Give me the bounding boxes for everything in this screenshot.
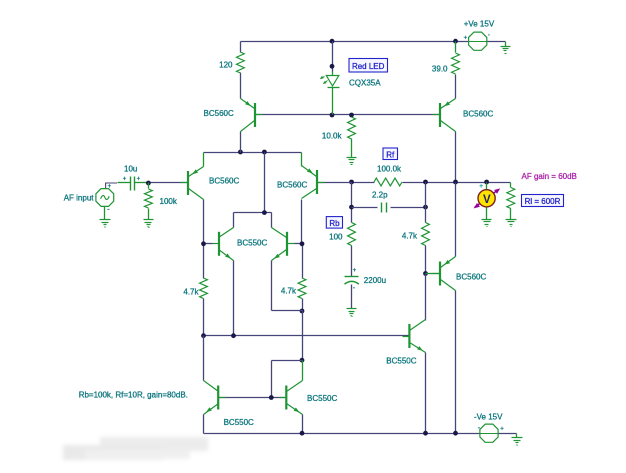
ground below Rl (506, 219, 517, 221)
svg-text:+: + (137, 177, 141, 183)
svg-text:4.7k: 4.7k (402, 232, 418, 241)
svg-text:100: 100 (329, 233, 343, 242)
svg-text:CQX35A: CQX35A (349, 79, 381, 88)
svg-text:BC560C: BC560C (456, 273, 486, 282)
wire lower jog down (271, 361, 273, 398)
svg-text:-Ve 15V: -Ve 15V (474, 412, 503, 421)
wire LED lead lower (332, 88, 334, 115)
wire +Ve source to ground (488, 41, 506, 43)
wire 2.2p row right (391, 207, 426, 209)
capacitor 2.2p (381, 203, 383, 213)
junction dot input node (146, 181, 151, 186)
transistor Q10 BC550C bottom right (285, 386, 287, 410)
transistor Q9 BC550C bottom left (217, 386, 219, 410)
junction dot bottom base node (269, 395, 274, 400)
wire mirror column vertical (264, 153, 266, 213)
wire bottom-right collector stub (302, 361, 304, 381)
junction dot long rail left (201, 333, 206, 338)
resistor 10.0k (348, 117, 356, 139)
wire right emitter jog (272, 310, 303, 312)
label Rb box (326, 217, 342, 229)
svg-text:+: + (464, 36, 468, 42)
svg-text:4.7k: 4.7k (183, 288, 199, 297)
junction dot mirror column on emitter rail (262, 150, 267, 155)
svg-text:Rb: Rb (329, 219, 340, 228)
source -Ve 15V (480, 424, 498, 442)
resistor Rb 100 (348, 223, 356, 246)
resistor 100k (145, 189, 153, 208)
wire 39 res to Q4 emitter (455, 75, 457, 99)
junction dot Q7 base node (423, 271, 428, 276)
wire AF source bottom (104, 207, 106, 220)
wire bottom-left emitter stub (203, 415, 205, 434)
svg-text:BC550C: BC550C (224, 418, 254, 427)
svg-text:+: + (108, 184, 112, 190)
wire Q5 collector down (301, 200, 303, 244)
wire 4.7k bottom to base node (425, 246, 427, 274)
ground below 2200u (347, 308, 357, 310)
svg-text:2.2p: 2.2p (372, 191, 388, 200)
junction dot output 4.7k tap (423, 180, 428, 185)
wire feedback node down (351, 183, 353, 223)
wire Q7 collector down to rail (455, 291, 457, 434)
svg-text:Rf: Rf (386, 150, 395, 159)
ground below AF source (100, 219, 111, 221)
transistor Q4 BC560C output top (439, 103, 441, 127)
wire mirror left collector stub (233, 213, 235, 228)
transistor Q8 BC550C driver (408, 324, 410, 348)
ground at -Ve (516, 434, 518, 438)
wire right 4.7k bottom (302, 299, 304, 311)
junction dot top rail at LED column (330, 39, 335, 44)
transistor Q7 BC560C lower right (439, 262, 441, 286)
svg-text:+: + (353, 268, 357, 274)
svg-text:BC560C: BC560C (277, 180, 307, 189)
wire 120 res to rail (240, 42, 242, 53)
label Red LED box (349, 59, 388, 73)
svg-text:BC550C: BC550C (386, 357, 416, 366)
svg-text:AF gain = 60dB: AF gain = 60dB (522, 172, 577, 181)
junction dot 2nd stage collector on emitter rail (238, 150, 243, 155)
wire 4.7k output column upper (425, 183, 427, 223)
wire driver emitter down to rail (425, 353, 427, 434)
junction dot 10k column on second rail (349, 113, 354, 118)
wire Q7 base lead (426, 273, 441, 275)
junction dot bottom rail x425 (423, 431, 428, 436)
svg-text:BC550C: BC550C (237, 239, 267, 248)
wire bottom rail (204, 433, 480, 435)
svg-text:AF input: AF input (64, 194, 95, 203)
wire feedback node to Rf (352, 182, 375, 184)
junction dot Q3 collector node (201, 241, 206, 246)
wire Q3 collector node down (203, 244, 205, 279)
wire output row (403, 182, 511, 184)
wire Q3 input collector down (203, 200, 205, 244)
wire bottom base link (219, 397, 287, 399)
wire diff-pair emitter rail (204, 152, 302, 154)
wire lower jog left (272, 360, 303, 362)
wire mirror collectors horizontal (234, 212, 272, 214)
svg-text:39.0: 39.0 (432, 65, 448, 74)
wire left 4.7k bottom (203, 299, 205, 336)
junction dot 2.2p right (423, 205, 428, 210)
junction dot bottom rail x455 (453, 431, 458, 436)
svg-text:': ' (488, 34, 489, 41)
wire AF source top (106, 183, 118, 189)
svg-text:V: V (483, 194, 491, 206)
svg-text:BC560C: BC560C (209, 176, 239, 185)
svg-text:BC560C: BC560C (463, 110, 493, 119)
transistor Q1 BC560C second stage (254, 103, 256, 127)
svg-text:10u: 10u (124, 165, 137, 174)
label Rl box (522, 195, 564, 207)
wire mirror right base (295, 243, 303, 245)
ground below 10.0k (347, 157, 357, 159)
wire right mirror emitter down (271, 261, 273, 311)
wire bottom-right emitter stub (302, 415, 304, 434)
wire LED column upper (332, 42, 334, 72)
junction dot 2.2p left (349, 205, 354, 210)
svg-text:Rb=100k, Rf=10R, gain=80dB.: Rb=100k, Rf=10R, gain=80dB. (79, 390, 188, 399)
wire 100k bottom lead (148, 209, 150, 220)
wire Rb bottom to cap (351, 246, 353, 277)
svg-text:100k: 100k (160, 197, 178, 206)
junction dot output emitter tap (453, 180, 458, 185)
capacitor 2200u (345, 276, 359, 278)
wire cap to ground (351, 285, 353, 309)
wire long mid rail (204, 335, 410, 337)
wire left column to bottom mirror (203, 336, 205, 381)
svg-text:120: 120 (219, 61, 233, 70)
svg-text:Rl = 600R: Rl = 600R (525, 197, 561, 206)
wire left mirror emitter down (233, 261, 235, 336)
source AF input (96, 189, 114, 207)
junction dot long rail mirror emitter (231, 333, 236, 338)
wire mirror right collector stub (271, 213, 273, 228)
wire cap to input node (138, 182, 149, 184)
wire x302 column down (302, 311, 304, 361)
wire 39 res top lead (455, 42, 457, 53)
resistor Rl 600R (510, 183, 512, 188)
wire mirror left base (204, 243, 213, 245)
wire top rail (241, 41, 469, 43)
svg-text:+: + (123, 177, 127, 183)
wire Q5 base to feedback node (317, 182, 352, 184)
junction dot Q5 collector node (300, 241, 305, 246)
resistor 4.7k left (200, 278, 208, 299)
wire Q7 base node down to driver collector (425, 274, 427, 321)
wire Q5 collector node down (302, 244, 304, 279)
source +Ve 15V (469, 32, 487, 50)
transistor Q5 BC560C diff right (316, 170, 318, 194)
resistor 4.7k output (422, 223, 430, 246)
junction dot bottom rail x302 (300, 431, 305, 436)
resistor 4.7k right (298, 278, 306, 299)
label Rf box (383, 148, 398, 160)
transistor Q3 BC560C input (187, 171, 189, 195)
junction dot voltmeter tap (484, 180, 489, 185)
wire -Ve source to ground (499, 433, 517, 435)
wire 120 res to Q2 emitter (240, 73, 242, 99)
wire 10.0k to ground (351, 139, 353, 158)
svg-text:+Ve 15V: +Ve 15V (464, 19, 495, 28)
transistor Q6a BC550C mirror left (218, 232, 220, 256)
node LED anode pin dot (330, 64, 335, 69)
wire 2.2p row left (352, 207, 378, 209)
LED CQX35A (332, 72, 334, 76)
svg-text:+: + (500, 426, 504, 432)
voltmeter V (486, 183, 488, 191)
watermark blob (63, 437, 208, 460)
wire output emitter column (455, 183, 457, 257)
wire Q4 collector to output node (455, 132, 457, 183)
junction dot right emitter node (300, 309, 305, 314)
ground below 100k (144, 219, 154, 221)
wire Q3 input emitter stub (203, 153, 205, 167)
resistor 120 (237, 52, 245, 73)
junction dot x302 lower node (300, 358, 305, 363)
svg-text:Red LED: Red LED (352, 62, 385, 71)
junction dot LED cathode on second rail (330, 113, 335, 118)
wire second rail (bases of BC560C stages) (255, 114, 441, 116)
svg-text:+: + (479, 183, 483, 190)
resistor Rf 100.0k (374, 178, 402, 186)
svg-text:10.0k: 10.0k (322, 132, 343, 141)
resistor 39.0 (452, 53, 460, 74)
svg-text:2200u: 2200u (364, 276, 386, 285)
svg-text:100.0k: 100.0k (377, 165, 402, 174)
svg-text:BC560C: BC560C (204, 109, 234, 118)
junction dot top rail at 39 ohm column (453, 39, 458, 44)
ground at +Ve (505, 42, 507, 47)
junction dot mirror collector node (262, 210, 267, 215)
transistor Q6b BC550C mirror right (286, 232, 288, 256)
svg-text:BC550C: BC550C (307, 394, 337, 403)
ground below voltmeter (482, 219, 492, 221)
wire Q5 emitter stub (301, 153, 303, 167)
wire input node to Q3 base (149, 182, 189, 184)
junction dot feedback node (349, 180, 354, 185)
wire 100k top lead (148, 183, 150, 189)
capacitor 10u (118, 182, 131, 184)
wire Q2 collector to emitter rail (240, 132, 242, 153)
svg-text:4.7k: 4.7k (281, 287, 297, 296)
